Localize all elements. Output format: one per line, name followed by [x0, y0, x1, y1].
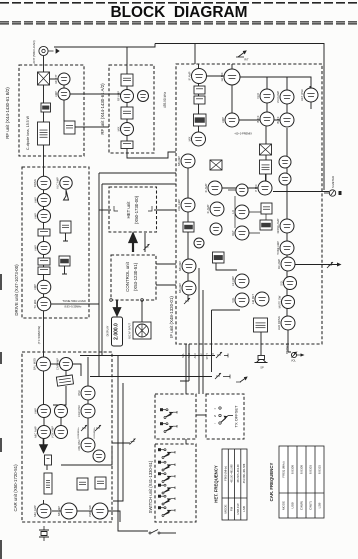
CW shift osc: [93, 450, 105, 462]
premix amp: [254, 181, 272, 195]
HET FREQUENCY table: [222, 449, 247, 520]
divider 2: [279, 173, 291, 185]
AF power amp: [254, 318, 268, 332]
wire j: [60, 404, 62, 405]
buffer 1: [256, 112, 274, 126]
SWITCH unit (X41-1330-51) box: [155, 444, 196, 522]
svg-text:SQL: SQL: [279, 280, 283, 286]
function switch c: [158, 472, 175, 482]
svg-text:8.8303: 8.8303: [309, 465, 313, 475]
drive filter: [38, 229, 50, 236]
svg-text:(X53-1230-51): (X53-1230-51): [133, 262, 138, 291]
crystal X1: [39, 526, 49, 541]
wire hvco stub: [309, 86, 311, 99]
svg-text:NB AMP: NB AMP: [178, 283, 182, 293]
svg-text:S: S: [214, 414, 216, 418]
wire to tx offset: [196, 414, 207, 416]
svg-text:RF unit (X44-1430-61 B/2): RF unit (X44-1430-61 B/2): [5, 87, 10, 139]
svg-text:TX OFFSET: TX OFFSET: [234, 405, 239, 428]
TX offset selector: [214, 407, 233, 426]
AGC amp: [210, 223, 222, 235]
function switch a: [158, 448, 175, 458]
wire antenna bus: [54, 44, 155, 48]
wire vol branch: [212, 309, 241, 311]
car trimmer 2: [95, 425, 101, 431]
frequency display 2.000.0: [112, 317, 123, 346]
HET unit (X50-1730-00) box: [109, 187, 157, 232]
svg-text:P MIX: P MIX: [254, 184, 258, 191]
wire antenna down: [43, 56, 45, 72]
key jack: [236, 377, 247, 382]
RF AMP stage: [116, 90, 133, 103]
svg-text:BAL MOD: BAL MOD: [32, 358, 36, 370]
svg-text:8B: 8B: [212, 353, 215, 356]
buffer 2: [276, 113, 294, 127]
wire IF chain top: [198, 64, 200, 134]
wire vco drop 1: [266, 77, 268, 112]
drive BPF b: [38, 267, 50, 275]
tone amp: [276, 241, 294, 255]
svg-text:8.8308: 8.8308: [300, 465, 304, 475]
page tear rule under title: [0, 22, 358, 24]
wire LPF out: [75, 126, 109, 128]
wire osc link: [87, 434, 89, 438]
wire car out: [108, 511, 120, 522]
mute switch: [279, 277, 296, 290]
svg-text:TX MIX: TX MIX: [33, 299, 37, 308]
wire car aux out: [112, 442, 130, 444]
NB amp: [177, 154, 195, 168]
wire control to mic: [141, 300, 143, 316]
svg-text:SQL: SQL: [182, 352, 185, 358]
svg-text:SP: SP: [260, 366, 264, 370]
HET corner mark L7: [114, 206, 118, 211]
wire top bus to meter: [155, 44, 324, 191]
svg-text:HET OSC: HET OSC: [300, 89, 304, 101]
S meter amp: [277, 295, 294, 308]
wire ALC out: [62, 266, 67, 274]
svg-text:PWR SW: PWR SW: [88, 505, 92, 517]
wire mid horizontal 1: [99, 172, 176, 174]
mic input arrow: [40, 439, 47, 452]
HET trimmer: [144, 244, 150, 250]
wire to M: [63, 233, 68, 241]
wire att down: [63, 85, 65, 88]
svg-text:AMP: AMP: [221, 117, 225, 123]
LED driver: [277, 316, 295, 330]
scan smudge 4: [0, 540, 2, 559]
IF unit (X48-1320-01) box: [176, 64, 322, 344]
svg-text:TUNE 50Ω LOAD: TUNE 50Ω LOAD: [62, 299, 86, 303]
S meter M1: [324, 190, 342, 196]
svg-text:NB AMP: NB AMP: [57, 506, 61, 516]
svg-text:NOISE AMP: NOISE AMP: [276, 218, 280, 233]
svg-text:AGC: AGC: [194, 353, 197, 359]
wire into MF: [65, 371, 67, 376]
wire A/2 out to IF: [127, 148, 176, 158]
wire mid vertical 2: [101, 184, 103, 356]
RF ATT stage: [54, 73, 70, 85]
2nd mixer: [187, 132, 205, 146]
1st IF amp: [187, 69, 206, 84]
wire premix column: [265, 126, 267, 188]
carrier amp: [55, 358, 72, 371]
noise amp 1: [178, 259, 196, 273]
premix buff: [260, 160, 272, 174]
mode switch a: [160, 408, 177, 418]
function switch b: [158, 461, 175, 471]
standby pot: [215, 373, 221, 379]
wire drop to switch 2: [198, 268, 200, 394]
wire CONTROL to IF 1: [156, 263, 176, 265]
wire car col a: [43, 418, 45, 425]
drive amp 4: [33, 280, 51, 294]
svg-text:451.588~461.588: 451.588~461.588: [243, 463, 246, 483]
svg-text:8.83~9.33MHz: 8.83~9.33MHz: [65, 305, 83, 309]
wire to 1st mix: [204, 75, 225, 77]
wire vco row 2: [239, 119, 281, 121]
AF preamp: [231, 274, 249, 288]
svg-text:RF ATT: RF ATT: [54, 74, 58, 83]
microphone input: [133, 322, 151, 339]
svg-text:AF AMP: AF AMP: [231, 276, 235, 286]
svg-text:CW(R): CW(R): [300, 501, 304, 510]
svg-text:MIX: MIX: [116, 126, 120, 131]
DRIVE unit (X47-1073-00) box: [22, 167, 89, 318]
key switch: [149, 530, 160, 535]
svg-text:C-dipole loss, 15.5 W: C-dipole loss, 15.5 W: [26, 115, 30, 150]
drive amp 1: [33, 176, 51, 190]
svg-text:CW(T): CW(T): [309, 501, 313, 510]
BPF 1: [121, 74, 133, 86]
RF unit (X44-1430-61 A/2) box: [109, 65, 154, 153]
wire det to af: [216, 263, 237, 270]
wire car right column: [87, 357, 89, 438]
CAR unit (X50-1720-51) box: [22, 352, 112, 522]
455 filter b: [194, 96, 205, 104]
svg-text:NB AMP: NB AMP: [178, 261, 182, 271]
svg-text:MIC AMP: MIC AMP: [33, 426, 37, 438]
svg-text:VOL: VOL: [291, 360, 296, 363]
HET corner mark L8: [148, 206, 152, 211]
wire premix to meter bus: [273, 191, 329, 193]
xtal a: [45, 455, 52, 465]
wire drop to jack: [211, 310, 213, 372]
wire if amp to det: [222, 187, 258, 189]
wire pll bus: [240, 77, 311, 88]
svg-text:(TX SSB/CW): (TX SSB/CW): [37, 326, 41, 345]
wire drop into IF box: [194, 43, 196, 64]
wire TX MIX out: [51, 303, 99, 305]
function switch e: [158, 495, 175, 505]
svg-text:8.8308: 8.8308: [291, 465, 295, 475]
svg-text:IF AMP: IF AMP: [206, 204, 210, 213]
svg-text:AMP: AMP: [33, 284, 37, 290]
svg-text:AMP: AMP: [33, 197, 37, 203]
wire mix down: [231, 64, 233, 113]
balanced modulator: [32, 357, 50, 371]
car amp 4: [50, 426, 67, 439]
BFO 1: [231, 205, 249, 219]
wire meter loop: [113, 383, 123, 501]
VCO 2: [276, 90, 294, 104]
svg-text:DISPLAY: DISPLAY: [106, 325, 110, 336]
wire bfo link: [265, 174, 267, 182]
function switch box: [155, 394, 196, 439]
wire car top row: [51, 363, 60, 365]
svg-text:S METER: S METER: [331, 176, 335, 188]
CONTROL unit (X53-1230-51) box: [111, 255, 156, 300]
wire mid vertical 1: [98, 173, 100, 377]
svg-text:NB AMP: NB AMP: [177, 156, 181, 166]
svg-text:ANT (50Ω LOAD): ANT (50Ω LOAD): [32, 40, 36, 63]
carrier osc USB: [77, 386, 95, 400]
LO buffer stage: [138, 91, 149, 102]
wire left TX chain: [43, 85, 45, 364]
wire drop to switch 3: [202, 290, 204, 394]
ALC amp stage: [56, 177, 73, 189]
car out amp: [57, 503, 77, 519]
svg-text:F900 (MHz): F900 (MHz): [224, 466, 228, 481]
wire sql drop: [180, 344, 189, 381]
IF amp 1: [204, 181, 222, 195]
CAR FREQUENCY table: [279, 446, 324, 518]
XF 455: [183, 222, 194, 232]
car amp 2: [55, 405, 68, 418]
svg-text:MIC AF INPUT: MIC AF INPUT: [129, 323, 132, 339]
svg-text:AMP: AMP: [33, 245, 37, 251]
svg-text:CONTROL unit: CONTROL unit: [125, 261, 130, 291]
svg-text:DC AMP: DC AMP: [277, 259, 281, 270]
svg-text:ALC AMP: ALC AMP: [56, 177, 60, 189]
RX mixer stage: [116, 123, 133, 136]
BPF 2: [121, 107, 133, 119]
drive amp 3: [33, 210, 50, 223]
CW carrier osc: [77, 438, 95, 452]
svg-text:PHONES: PHONES: [286, 343, 289, 354]
het buffer: [236, 184, 248, 196]
detector: [213, 252, 225, 263]
svg-text:8.8306MHz: 8.8306MHz: [78, 427, 80, 438]
svg-text:MUTE SW: MUTE SW: [277, 295, 281, 308]
svg-text:AMP: AMP: [33, 213, 37, 219]
mechanical filter MF1: [56, 375, 73, 386]
scan smudge 1: [0, 274, 2, 290]
svg-text:AM DET: AM DET: [251, 294, 255, 305]
svg-text:VOX AMP: VOX AMP: [50, 426, 54, 438]
svg-text:AMP: AMP: [54, 91, 58, 97]
phones volume pot: [291, 352, 305, 362]
AM detector: [251, 292, 269, 306]
wire drop to RF A/2 input: [126, 47, 128, 74]
svg-text:VOL: VOL: [231, 297, 235, 303]
wire xtal chain: [46, 465, 48, 470]
wire car amp out: [73, 364, 81, 376]
svg-text:CRL AMP: CRL AMP: [177, 199, 181, 211]
svg-text:HET. FREQUENCY: HET. FREQUENCY: [214, 465, 219, 503]
svg-text:451.50~461.598: 451.50~461.598: [231, 464, 234, 483]
svg-text:OSC: OSC: [77, 390, 81, 396]
VCO 1: [256, 89, 274, 103]
drive pot: [216, 352, 222, 358]
svg-text:DRIVE unit (X47-1073-00): DRIVE unit (X47-1073-00): [14, 264, 19, 316]
wire B/2 to A/2: [70, 93, 121, 95]
svg-text:LSB: LSB: [318, 503, 322, 509]
wire to LPF: [63, 100, 65, 121]
divider 1: [279, 156, 291, 168]
wire af to speaker: [260, 332, 262, 355]
svg-text:LO: LO: [231, 210, 235, 214]
svg-text:8.8315: 8.8315: [318, 465, 322, 475]
function switch f: [158, 506, 175, 516]
wire HET trim drop: [144, 233, 146, 252]
HET VCO coupling arrow: [130, 234, 137, 252]
AF vol amp: [231, 293, 249, 307]
arrow terminal: [337, 263, 342, 267]
svg-text:–60–0 PREMIX: –60–0 PREMIX: [234, 132, 252, 136]
wire bottom bus 1: [80, 355, 215, 357]
wire hvco down: [310, 102, 312, 109]
power amp 2SC2509: [38, 122, 50, 145]
bal mod 2: [33, 504, 51, 518]
svg-text:VCO AMP: VCO AMP: [276, 91, 280, 103]
crystal filter XF1: [210, 160, 222, 170]
svg-text:SWITCH unit (X41-1330-51): SWITCH unit (X41-1330-51): [148, 460, 153, 513]
scan smudge 2: [0, 352, 2, 364]
wire HET to IF 1: [154, 209, 176, 211]
wire car col b: [60, 418, 62, 425]
RIT control: [236, 51, 246, 57]
wire to bal mod: [43, 500, 45, 505]
TX mixer stage: [33, 297, 51, 311]
svg-text:USB: USB: [291, 502, 295, 508]
svg-text:TONE AMP: TONE AMP: [276, 241, 280, 255]
svg-text:LSB: LSB: [242, 506, 246, 512]
NB gate: [194, 114, 207, 126]
scan smudge 3: [0, 438, 2, 452]
control terminal dot: [110, 299, 113, 302]
wire mic to control: [141, 316, 143, 322]
wire key to switch unit: [160, 532, 176, 534]
wire long drop to key: [118, 356, 148, 531]
antenna relay: [38, 72, 50, 85]
drive amp 2: [33, 194, 50, 207]
svg-text:MODE: MODE: [224, 505, 228, 514]
BFO unit: [261, 203, 272, 214]
wire switch boxes link: [185, 439, 187, 444]
wire bm to amp: [52, 510, 61, 512]
wire bal mod down: [43, 371, 45, 404]
car amp 3: [33, 426, 50, 439]
svg-text:BUFF: BUFF: [256, 115, 260, 122]
svg-text:8.8316MHz: 8.8316MHz: [94, 427, 96, 438]
ALC det: [59, 256, 70, 266]
wire HET in left: [99, 209, 111, 211]
svg-text:RIT: RIT: [244, 58, 249, 62]
TX OFFSET switch box: [206, 394, 244, 439]
antenna connector J1: [39, 46, 59, 55]
svg-text:IF AMP: IF AMP: [187, 71, 191, 80]
svg-text:BLOCK DIAGRAM: BLOCK DIAGRAM: [111, 4, 248, 21]
svg-text:CAR OSC: CAR OSC: [77, 405, 81, 417]
svg-text:CAR unit (X50-1720-51): CAR unit (X50-1720-51): [13, 464, 18, 512]
wire right column: [286, 128, 288, 330]
svg-text:HET unit: HET unit: [126, 201, 131, 219]
wire vco drop 2: [286, 77, 288, 113]
wire to phones: [288, 330, 291, 352]
control terminal dot 2: [141, 299, 144, 302]
svg-text:MODE: MODE: [282, 501, 286, 510]
car trimmer 1: [81, 425, 87, 431]
carrier osc: [194, 238, 204, 248]
premix filter: [260, 144, 272, 155]
svg-text:FREQ (MHz): FREQ (MHz): [282, 461, 286, 477]
RF unit (X44-1430-61 B/2) box: [19, 65, 84, 156]
wire amp out: [77, 510, 92, 512]
wire drop to switch 1: [185, 344, 187, 394]
driver stage: [54, 88, 70, 100]
svg-text:1st MIX: 1st MIX: [220, 72, 224, 81]
page tear rule top: [0, 2, 358, 4]
drive BPF a: [38, 258, 50, 265]
svg-text:(X50-1730-00): (X50-1730-00): [134, 195, 139, 224]
wire bfo chain: [249, 212, 266, 233]
svg-text:LED DRIVE: LED DRIVE: [277, 316, 281, 330]
speaker SP1: [255, 356, 268, 370]
meter amp 4Y: [60, 221, 71, 233]
IF amp 3: [206, 202, 224, 216]
wire bottom bus 2: [90, 376, 212, 378]
BPF 3: [121, 141, 133, 149]
svg-text:+: +: [214, 407, 216, 411]
carrier osc LSB: [77, 404, 95, 418]
455 filter a: [194, 86, 205, 94]
svg-text:USB,CW: USB,CW: [236, 503, 240, 515]
ALC diode: [64, 190, 69, 200]
wire CONTROL to IF 2: [156, 284, 176, 286]
BFO 2: [231, 226, 249, 240]
wire IF chain low: [187, 168, 189, 300]
pre drive stage: [33, 242, 50, 255]
wire cw osc loop: [61, 447, 112, 465]
svg-text:MIC AMP: MIC AMP: [33, 505, 37, 517]
car aux pot: [130, 439, 136, 445]
wire mid horizontal 3: [102, 183, 176, 185]
wire relay to att: [50, 78, 59, 80]
svg-text:DET: DET: [231, 230, 235, 236]
svg-text:FM: FM: [230, 506, 234, 511]
svg-text:2.000.0: 2.000.0: [113, 323, 119, 340]
svg-text:RF AMP: RF AMP: [116, 91, 120, 101]
squelch trimmer: [184, 298, 190, 304]
ANT SW protector: [41, 103, 51, 112]
display drive arrow: [114, 300, 120, 315]
LPF box: [64, 121, 75, 134]
IF amp 2: [177, 198, 195, 212]
AF gain pot: [327, 262, 333, 268]
svg-text:CAR AMP: CAR AMP: [55, 358, 59, 370]
svg-text:IF AMP: IF AMP: [204, 183, 208, 192]
svg-text:AMP: AMP: [33, 408, 37, 414]
svg-text:AF: AF: [200, 353, 203, 357]
AGC det: [276, 218, 294, 233]
gate A: [77, 478, 88, 490]
svg-text:BUFF: BUFF: [276, 116, 280, 123]
VCO amp: [221, 113, 239, 127]
svg-text:MIC: MIC: [188, 353, 191, 358]
wire pot2 terminal: [223, 375, 230, 379]
svg-text:MIX: MIX: [187, 136, 191, 141]
